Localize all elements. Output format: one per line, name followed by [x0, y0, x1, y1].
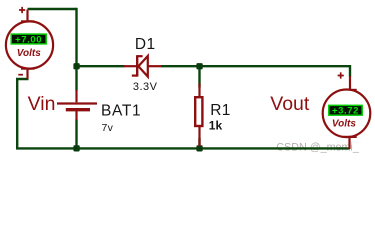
svg-text:R1: R1	[210, 102, 231, 119]
svg-text:Volts: Volts	[17, 48, 41, 59]
svg-text:Vin: Vin	[28, 93, 56, 115]
battery BAT1 short plate	[66, 108, 90, 111]
diode D1 cathode bar	[136, 55, 138, 76]
wire battery minus lower	[75, 119, 77, 148]
wire battery plus pin upper	[75, 66, 77, 90]
voltmeter VM1 body circle	[6, 21, 53, 68]
junction node battery top	[73, 63, 79, 69]
resistor R1	[195, 83, 202, 146]
svg-text:Volts: Volts	[332, 119, 356, 130]
voltmeter VM2 bottom terminal bar	[343, 136, 356, 138]
voltmeter VM2 bottom pin	[348, 137, 350, 149]
battery BAT1	[57, 90, 97, 120]
voltmeter VM1 top terminal bar	[21, 20, 34, 22]
voltmeter VM2	[323, 72, 371, 149]
wire D1 anode to output node	[161, 65, 350, 67]
battery BAT1 long plate	[57, 102, 97, 104]
resistor R1 top lead	[198, 83, 200, 96]
svg-text:D1: D1	[135, 36, 156, 53]
voltmeter VM2 top pin	[349, 76, 351, 90]
wire ground rail bottom	[16, 147, 349, 149]
junction node R1 bottom rail	[196, 145, 202, 151]
wire output drop to VM2	[349, 65, 351, 76]
svg-text:+3.72: +3.72	[332, 106, 359, 117]
svg-text:3.3V: 3.3V	[133, 81, 158, 93]
battery BAT1 minus pin	[75, 111, 77, 120]
diode D1 cathode pin	[124, 65, 136, 67]
voltmeter VM2 display	[329, 105, 362, 115]
junction node R1 top	[196, 63, 202, 69]
voltmeter VM1	[6, 7, 53, 79]
wire VM1 minus jog	[17, 79, 28, 148]
diode D1 cathode bottom tab	[132, 74, 137, 76]
svg-text:Vout: Vout	[270, 93, 310, 115]
voltmeter VM1 plus mark	[19, 7, 25, 13]
diode D1 triangle	[138, 56, 147, 77]
wire top rail from VM1 plus to battery top	[27, 8, 76, 10]
diode D1 anode pin	[148, 65, 161, 67]
wire node Vin horizontal to D1	[76, 65, 124, 67]
svg-text:1k: 1k	[209, 119, 223, 133]
junction node battery bottom rail	[73, 145, 79, 151]
svg-text:+7.00: +7.00	[15, 34, 42, 45]
voltmeter VM2 plus mark	[338, 72, 344, 78]
voltmeter VM2 top terminal bar	[343, 89, 356, 91]
voltmeter VM1 top pin	[26, 9, 28, 21]
battery BAT1 plus pin	[75, 90, 77, 102]
voltmeter VM1 display	[11, 34, 46, 44]
resistor R1 bottom lead	[198, 126, 200, 146]
voltmeter VM1 bottom pin	[26, 68, 28, 78]
voltmeter VM1 bottom terminal bar	[21, 67, 34, 69]
resistor R1 body	[195, 97, 202, 126]
zener diode D1	[124, 55, 161, 76]
svg-text:7v: 7v	[101, 123, 113, 134]
voltmeter VM1 minus mark	[18, 74, 23, 76]
voltmeter VM2 body circle	[323, 89, 371, 137]
wire R1 top pin	[198, 66, 200, 87]
wire left riser battery top	[75, 8, 77, 67]
wire R1 bottom pin	[198, 138, 200, 148]
svg-text:BAT1: BAT1	[101, 102, 141, 119]
diode D1 cathode top tab	[137, 55, 142, 57]
